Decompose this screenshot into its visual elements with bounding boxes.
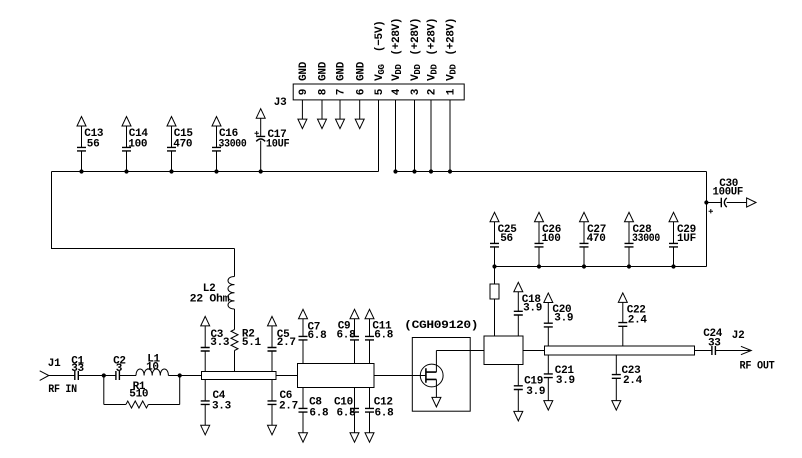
svg-text:J3: J3 (274, 97, 287, 109)
svg-text:3.9: 3.9 (556, 375, 575, 387)
svg-text:2.4: 2.4 (623, 375, 643, 387)
svg-text:3.3: 3.3 (210, 337, 230, 349)
svg-text:GND: GND (298, 61, 310, 81)
svg-text:7: 7 (336, 89, 348, 95)
svg-text:RF OUT: RF OUT (740, 361, 776, 373)
svg-text:6.8: 6.8 (375, 408, 395, 420)
svg-text:33: 33 (708, 338, 721, 350)
svg-text:33000: 33000 (219, 139, 247, 151)
svg-text:33000: 33000 (632, 233, 660, 245)
svg-text:6.8: 6.8 (337, 408, 357, 420)
svg-text:GND: GND (336, 61, 348, 81)
svg-text:9: 9 (298, 89, 310, 95)
svg-text:100: 100 (542, 233, 561, 245)
svg-text:100: 100 (128, 139, 147, 151)
svg-text:1: 1 (446, 88, 458, 95)
svg-text:5.1: 5.1 (242, 337, 262, 349)
svg-text:510: 510 (129, 389, 148, 401)
svg-text:5: 5 (374, 88, 386, 95)
svg-text:GND: GND (355, 61, 367, 81)
svg-text:2: 2 (427, 89, 439, 95)
svg-text:33: 33 (71, 363, 84, 375)
svg-text:C12: C12 (374, 396, 393, 408)
svg-text:56: 56 (87, 139, 100, 151)
svg-text:RF IN: RF IN (48, 384, 77, 396)
svg-text:(CGH09120): (CGH09120) (404, 320, 478, 332)
svg-text:1UF: 1UF (677, 233, 696, 245)
svg-text:3.9: 3.9 (526, 386, 545, 398)
svg-text:J2: J2 (732, 330, 745, 342)
svg-text:8: 8 (318, 88, 330, 95)
svg-text:2.7: 2.7 (279, 400, 298, 412)
svg-text:10: 10 (146, 362, 159, 374)
svg-text:3.9: 3.9 (523, 302, 542, 314)
svg-text:3: 3 (116, 363, 123, 375)
svg-text:470: 470 (173, 139, 192, 151)
svg-text:100UF: 100UF (713, 186, 744, 198)
svg-text:C10: C10 (334, 396, 353, 408)
svg-text:2.7: 2.7 (277, 337, 296, 349)
svg-text:6.8: 6.8 (337, 329, 357, 341)
svg-text:C8: C8 (309, 396, 322, 408)
svg-text:56: 56 (500, 233, 513, 245)
svg-text:10UF: 10UF (266, 139, 290, 151)
svg-text:2.4: 2.4 (628, 314, 648, 326)
svg-text:GND: GND (318, 61, 330, 81)
svg-text:6: 6 (355, 89, 367, 95)
svg-text:6.8: 6.8 (308, 330, 328, 342)
svg-text:470: 470 (587, 233, 606, 245)
svg-text:4: 4 (391, 88, 403, 95)
svg-text:22 Ohm: 22 Ohm (190, 294, 230, 306)
svg-text:J1: J1 (48, 358, 61, 370)
svg-text:6.8: 6.8 (309, 408, 329, 420)
svg-text:3.3: 3.3 (212, 400, 232, 412)
svg-text:3: 3 (410, 88, 422, 95)
svg-text:3.9: 3.9 (554, 312, 573, 324)
svg-text:6.8: 6.8 (374, 329, 394, 341)
